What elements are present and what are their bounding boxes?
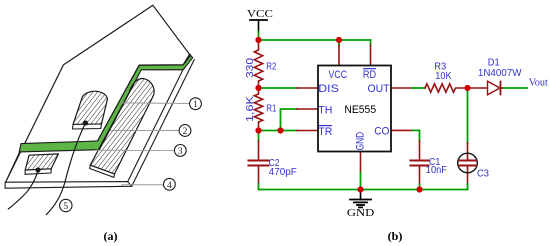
wire from small pad (5) (46, 123, 85, 215)
resistor R2 (254, 40, 262, 88)
svg-text:VCC: VCC (329, 69, 348, 81)
wire C2 to rail (258, 184, 260, 190)
diode D1 triangle (488, 81, 501, 95)
label circle 4 (164, 178, 176, 190)
pin TR (pin 2) (297, 130, 318, 132)
junction node OUT/R3/D1/C3 (464, 85, 470, 91)
capacitor C2 plates (249, 160, 269, 162)
svg-text:GND: GND (355, 132, 367, 151)
svg-text:470pF: 470pF (269, 166, 297, 178)
junction node VCC rail left (255, 37, 261, 43)
op-amp/timer U1 NE555 body (318, 66, 391, 152)
leader line 1 (120, 102, 189, 105)
svg-text:(a): (a) (104, 229, 118, 243)
diode D1 lead (468, 87, 488, 89)
wire RD corner (370, 40, 372, 46)
wire GND pin to rail (360, 173, 362, 190)
junction node R2/R1/DIS (255, 85, 261, 91)
wire C1 to rail (419, 185, 421, 190)
leader line 2 (110, 130, 179, 132)
label circle 2 (179, 125, 191, 137)
svg-text:(b): (b) (388, 229, 403, 243)
capacitor C2 leads (258, 131, 260, 142)
label circle 3 (174, 145, 186, 157)
svg-text:DIS: DIS (318, 83, 339, 95)
substrate front face (5, 182, 132, 189)
capacitor C1 plates (411, 160, 429, 162)
pin RD (pin 4) (370, 46, 372, 66)
capacitor C3 leads (467, 143, 469, 160)
capacitor C3 plates (459, 160, 476, 162)
wire C3 to rail (467, 184, 469, 190)
small electrode pad on sheet (73, 91, 107, 124)
wire to Vout (501, 87, 505, 89)
big electrode bottom edge face (90, 165, 115, 177)
junction node GND rail (357, 186, 363, 192)
svg-text:NE555: NE555 (344, 104, 376, 116)
wire OUT to R3 (412, 87, 425, 89)
capacitor C3 circle (458, 153, 478, 173)
svg-text:TH: TH (318, 105, 332, 117)
junction node R1/TR/C2 (255, 127, 261, 133)
svg-text:10K: 10K (435, 70, 451, 82)
svg-text:GND: GND (347, 207, 374, 219)
svg-text:Vout: Vout (529, 78, 548, 89)
wire top rail (259, 39, 371, 41)
svg-text:R1: R1 (266, 102, 276, 114)
wire from bottom-left pad (5) (8, 170, 38, 209)
wire CO to C1 (412, 130, 420, 141)
svg-text:3: 3 (178, 147, 183, 157)
label circle 1 (190, 98, 202, 110)
svg-text:10nF: 10nF (426, 164, 447, 176)
svg-text:5: 5 (63, 202, 68, 212)
resistor R3 (425, 84, 468, 92)
svg-text:OUT: OUT (368, 83, 390, 95)
svg-text:RD: RD (363, 69, 376, 81)
svg-text:1: 1 (193, 100, 198, 110)
substrate right thickness edge (132, 60, 195, 187)
wire VCC stem (258, 32, 260, 41)
svg-text:1N4007W: 1N4007W (478, 67, 522, 79)
svg-text:C3: C3 (477, 168, 489, 180)
wire TH branch (281, 109, 298, 131)
svg-text:2: 2 (183, 127, 188, 137)
resistor R1 (254, 88, 262, 131)
svg-text:330: 330 (244, 58, 256, 78)
svg-text:TR: TR (318, 126, 332, 138)
svg-text:1,6K: 1,6K (244, 96, 256, 122)
small pad bottom edge face (73, 124, 102, 129)
wire VCC pin drop (338, 40, 340, 46)
wire ground rail (259, 189, 468, 191)
top cover sheet (6, 5, 190, 182)
pin OUT (pin 3) (391, 87, 412, 89)
junction node C1 rail (416, 186, 422, 192)
leader line 3 (95, 149, 174, 151)
junction node TH/TR branch (277, 127, 283, 133)
diode D1 cathode bar (500, 82, 502, 95)
pin DIS (pin 7) (297, 87, 318, 89)
svg-text:R2: R2 (266, 61, 276, 73)
substrate right edge (128, 55, 191, 182)
capacitor C1 leads (419, 141, 421, 160)
svg-text:CO: CO (374, 126, 390, 138)
green sensing layer (L-shaped exposed band) (19, 55, 193, 151)
pin VCC (pin 8) (338, 46, 340, 66)
pin TH (pin 6) (297, 108, 318, 110)
svg-text:VCC: VCC (247, 8, 273, 20)
VCC power symbol (250, 20, 267, 32)
label circle 5 (60, 199, 72, 212)
svg-text:4: 4 (167, 181, 172, 191)
big hatched electrode (right strip) (90, 79, 154, 174)
wire junction to C3 (467, 88, 469, 143)
wire TR (259, 130, 298, 132)
bottom-left pad edge face (25, 169, 51, 175)
wire DIS (259, 87, 298, 89)
ground symbol (350, 190, 371, 208)
wire terminal dot on bottom-left pad (35, 167, 40, 172)
pin CO (pin 5) (391, 129, 412, 131)
pin GND (pin 1) (360, 152, 362, 173)
bottom-left electrode pad on substrate (25, 154, 58, 170)
wire terminal dot on small pad (83, 120, 88, 125)
junction node VCC pin (336, 37, 342, 43)
leader line 4 (121, 184, 163, 186)
